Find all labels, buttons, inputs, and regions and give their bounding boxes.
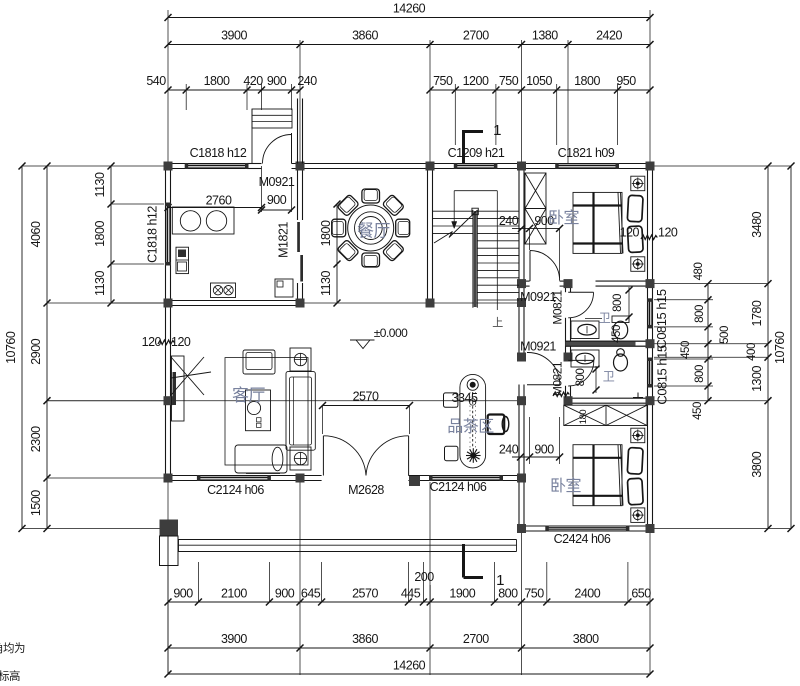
svg-text:1130: 1130 — [93, 271, 107, 296]
svg-text:M2628: M2628 — [348, 483, 384, 497]
svg-text:240: 240 — [499, 443, 519, 457]
svg-text:10760: 10760 — [773, 331, 787, 364]
svg-text:1200: 1200 — [463, 74, 489, 88]
svg-text:2570: 2570 — [353, 390, 379, 404]
svg-text:2300: 2300 — [29, 426, 43, 452]
svg-text:3800: 3800 — [573, 632, 599, 646]
svg-text:2420: 2420 — [596, 29, 622, 43]
svg-text:645: 645 — [301, 587, 321, 601]
svg-text:M0921: M0921 — [520, 340, 556, 354]
svg-text:800: 800 — [694, 365, 706, 383]
svg-text:180: 180 — [578, 410, 589, 425]
svg-text:3480: 3480 — [750, 211, 764, 237]
svg-text:C0815 h15: C0815 h15 — [654, 289, 669, 348]
svg-text:900: 900 — [173, 587, 193, 601]
svg-text:450: 450 — [611, 325, 623, 343]
svg-text:1130: 1130 — [93, 172, 107, 197]
svg-text:900: 900 — [267, 74, 287, 88]
svg-text:上: 上 — [492, 316, 503, 329]
svg-text:卧室: 卧室 — [548, 209, 580, 227]
svg-text:2900: 2900 — [29, 338, 43, 364]
svg-text:950: 950 — [616, 74, 636, 88]
svg-text:1: 1 — [496, 572, 504, 589]
svg-text:1050: 1050 — [526, 74, 552, 88]
svg-text:14260: 14260 — [393, 2, 426, 16]
svg-text:800: 800 — [694, 305, 706, 323]
svg-text:1800: 1800 — [204, 74, 230, 88]
svg-text:1900: 1900 — [449, 587, 475, 601]
svg-text:1300: 1300 — [750, 366, 764, 392]
svg-text:卫: 卫 — [599, 311, 611, 325]
svg-text:120: 120 — [620, 226, 640, 240]
svg-text:400: 400 — [746, 343, 758, 361]
svg-text:445: 445 — [401, 587, 421, 601]
svg-text:750: 750 — [524, 587, 544, 601]
svg-text:标高: 标高 — [0, 669, 20, 681]
svg-text:500: 500 — [719, 326, 731, 344]
svg-text:1: 1 — [493, 122, 501, 139]
svg-text:420: 420 — [243, 74, 263, 88]
svg-text:1800: 1800 — [574, 74, 600, 88]
svg-text:3860: 3860 — [352, 29, 378, 43]
svg-text:800: 800 — [575, 369, 587, 387]
svg-text:M0921: M0921 — [259, 175, 295, 189]
svg-text:750: 750 — [499, 74, 519, 88]
svg-text:1130: 1130 — [319, 271, 333, 296]
svg-text:品茶区: 品茶区 — [447, 418, 494, 436]
svg-text:200: 200 — [414, 570, 434, 584]
svg-text:3860: 3860 — [352, 632, 378, 646]
svg-text:2400: 2400 — [574, 587, 600, 601]
svg-text:3800: 3800 — [750, 451, 764, 477]
svg-text:450: 450 — [680, 341, 692, 359]
svg-text:4060: 4060 — [29, 221, 43, 247]
svg-text:餐厅: 餐厅 — [357, 222, 390, 241]
svg-text:900: 900 — [267, 193, 287, 207]
svg-text:750: 750 — [433, 74, 453, 88]
svg-text:M0821: M0821 — [551, 290, 565, 325]
svg-text:1380: 1380 — [532, 29, 558, 43]
svg-text:2700: 2700 — [463, 632, 489, 646]
svg-text:C2124 h06: C2124 h06 — [430, 480, 487, 494]
svg-text:M0821: M0821 — [551, 361, 565, 396]
svg-text:3900: 3900 — [221, 632, 247, 646]
svg-text:800: 800 — [612, 294, 624, 312]
svg-text:2100: 2100 — [221, 587, 247, 601]
svg-text:1780: 1780 — [750, 300, 764, 326]
svg-text:角均为: 角均为 — [0, 642, 25, 655]
svg-text:1800: 1800 — [319, 220, 333, 246]
svg-text:10760: 10760 — [4, 331, 18, 364]
svg-text:C1821 h09: C1821 h09 — [558, 146, 615, 160]
svg-text:14260: 14260 — [393, 659, 426, 673]
svg-text:1800: 1800 — [93, 221, 107, 247]
svg-text:3900: 3900 — [221, 29, 247, 43]
svg-text:C2424 h06: C2424 h06 — [554, 532, 611, 546]
svg-text:C2124 h06: C2124 h06 — [207, 483, 264, 497]
svg-text:M1821: M1821 — [277, 222, 291, 258]
svg-text:2570: 2570 — [352, 587, 378, 601]
svg-text:±0.000: ±0.000 — [374, 326, 408, 340]
svg-text:C1818 h12: C1818 h12 — [190, 146, 247, 160]
svg-text:900: 900 — [275, 587, 295, 601]
svg-text:240: 240 — [297, 74, 317, 88]
svg-text:C0815 h15: C0815 h15 — [655, 345, 670, 404]
svg-text:1500: 1500 — [29, 490, 43, 516]
svg-text:450: 450 — [692, 402, 704, 420]
svg-text:480: 480 — [693, 263, 705, 281]
svg-text:C1209 h21: C1209 h21 — [448, 146, 505, 160]
svg-text:C1818 h12: C1818 h12 — [146, 206, 160, 263]
svg-text:客厅: 客厅 — [232, 386, 265, 405]
svg-text:120: 120 — [658, 226, 678, 240]
svg-text:卧室: 卧室 — [550, 477, 582, 495]
svg-text:卫: 卫 — [603, 370, 615, 384]
svg-text:650: 650 — [631, 587, 651, 601]
svg-text:540: 540 — [146, 74, 166, 88]
svg-text:900: 900 — [534, 443, 554, 457]
svg-text:2760: 2760 — [206, 194, 232, 208]
svg-text:2700: 2700 — [463, 29, 489, 43]
